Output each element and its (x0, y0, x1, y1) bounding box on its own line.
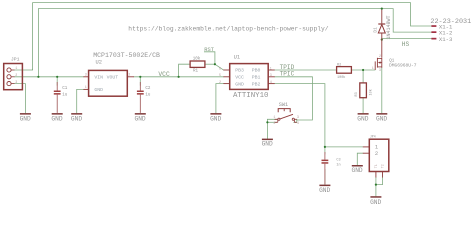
svg-text:1: 1 (273, 116, 275, 120)
wire U2 GND to ground (77, 89, 84, 113)
capacitor C3 (322, 152, 329, 184)
svg-text:5: 5 (219, 74, 221, 78)
wire Q1 drain to ground (381, 68, 383, 113)
svg-text:1: 1 (15, 67, 17, 71)
node RST at R1 output (214, 63, 216, 65)
junction JP4 bottom pins (375, 184, 377, 186)
svg-text:3: 3 (85, 73, 87, 77)
ground JP1 pin3 (20, 113, 31, 115)
junction C1 on VIN bus (56, 76, 58, 78)
wire JP1 pin1 horizontal (15, 69, 33, 70)
ground Q1 (376, 113, 387, 115)
svg-text:1: 1 (270, 67, 272, 71)
wire VCC up to R1 (179, 64, 191, 77)
svg-text:SW1: SW1 (279, 102, 289, 108)
wire SW1 left pin2 stub (267, 121, 276, 123)
wire JP1 pin3 to GND (15, 84, 26, 113)
junction R1 branch on VCC bus (178, 76, 180, 78)
svg-text:2: 2 (375, 150, 378, 157)
svg-text:4: 4 (297, 122, 299, 126)
svg-text:2: 2 (379, 55, 381, 59)
resistor R1 (190, 61, 205, 67)
ground symbols row under left section (20, 113, 387, 198)
svg-text:X1-3: X1-3 (439, 36, 452, 43)
svg-text:PB0: PB0 (252, 68, 261, 74)
wire JP4 bottom pin T1 to GND (375, 178, 377, 197)
ground C2 (135, 113, 146, 115)
svg-text:1u: 1u (62, 93, 68, 97)
svg-text:U1: U1 (234, 54, 240, 60)
junction VIN bus at JP1 (37, 76, 39, 78)
connector JP4 (363, 139, 389, 177)
svg-text:GND: GND (319, 187, 330, 194)
svg-text:PB2: PB2 (252, 81, 261, 87)
wire RST label stub (204, 52, 215, 64)
wire diagonal RST node to U1 PB3 (215, 64, 224, 70)
svg-text:2: 2 (219, 81, 221, 85)
wire bus top from JP1 pin2 junction to diode and X1-2 (38, 9, 431, 77)
svg-text:3: 3 (15, 81, 17, 85)
wire SW1 right pin stubs (294, 119, 297, 122)
ground C1 (52, 113, 63, 115)
svg-text:T1: T1 (375, 164, 379, 168)
wire C3 to ground (324, 170, 326, 185)
svg-text:VCC: VCC (235, 75, 244, 81)
svg-text:2: 2 (128, 73, 130, 77)
svg-text:GND: GND (135, 115, 146, 122)
svg-text:ATTINY10: ATTINY10 (233, 92, 268, 100)
wire gate node down to R3 (362, 70, 364, 83)
ground SW1 (262, 139, 273, 141)
svg-text:3: 3 (297, 116, 299, 120)
wire JP1 pin2 to U2 VIN (15, 76, 84, 78)
svg-text:GND: GND (94, 87, 103, 93)
svg-text:2: 2 (273, 122, 275, 126)
junction C2 on VCC bus (139, 76, 141, 78)
wire JP4 bottom pin T2 join (376, 178, 383, 185)
MCU U1 ATTINY10 (223, 64, 274, 90)
svg-text:JP1: JP1 (11, 56, 20, 62)
wire node down to C3 (324, 147, 326, 154)
svg-text:6: 6 (219, 67, 221, 71)
wire R2 to gate node (351, 69, 375, 71)
capacitor C1 (54, 82, 61, 113)
svg-text:JP4: JP4 (370, 135, 376, 139)
svg-text:4: 4 (270, 81, 272, 85)
svg-text:3: 3 (379, 69, 381, 73)
svg-text:D1: D1 (372, 27, 378, 33)
svg-text:U2: U2 (96, 59, 102, 65)
svg-text:1: 1 (85, 86, 87, 90)
svg-text:T2: T2 (382, 164, 386, 168)
svg-text:R2: R2 (337, 63, 341, 67)
wire C2 branch (139, 77, 141, 85)
svg-text:GND: GND (262, 141, 273, 148)
wire node to JP4 pin1 (325, 146, 363, 148)
svg-text:GND: GND (352, 167, 363, 174)
wire R1 to RST node (205, 63, 215, 65)
wire U1 GND to ground (216, 84, 224, 113)
ground JP4 bottom (370, 196, 381, 198)
node HS diode anode (381, 39, 383, 41)
svg-text:C3: C3 (336, 158, 340, 162)
svg-text:RST: RST (204, 47, 214, 53)
svg-text:MCP1703T-5002E/CB: MCP1703T-5002E/CB (93, 52, 160, 59)
ground U2 (71, 113, 82, 115)
svg-text:R3: R3 (355, 92, 359, 96)
wire R3 to ground (362, 98, 364, 113)
svg-text:10k: 10k (368, 89, 373, 95)
svg-text:R1: R1 (193, 70, 199, 74)
svg-text:VCC: VCC (158, 71, 170, 78)
svg-text:GND: GND (376, 115, 387, 122)
ground JP4 pin2 (352, 165, 363, 167)
wire PB2 to JP4 node (275, 84, 325, 147)
connector X1 pins (431, 25, 436, 39)
node PB2 JP4-C3 branch (324, 146, 326, 148)
svg-text:3: 3 (270, 74, 272, 78)
wire SW1 left pins to GND (267, 119, 276, 138)
svg-text:HS: HS (402, 41, 410, 48)
resistor R2 (337, 67, 352, 74)
wire VIN top from JP1 pin1 to X1-1 (33, 3, 432, 70)
svg-text:PB1: PB1 (252, 75, 261, 81)
svg-text:PB3: PB3 (235, 68, 244, 74)
svg-text:GND: GND (370, 199, 381, 206)
svg-text:GND: GND (210, 115, 221, 122)
regulator U2 MCP1703 (83, 70, 134, 96)
svg-text:https://blog.zakkemble.net/lap: https://blog.zakkemble.net/laptop-bench-… (128, 25, 328, 32)
wire HS from diode node to X1-3 (382, 38, 432, 40)
svg-text:GND: GND (357, 115, 368, 122)
svg-text:1u: 1u (145, 93, 151, 97)
ground C3 (319, 185, 330, 187)
svg-text:DMG6968U-7: DMG6968U-7 (389, 63, 417, 69)
wire TPID from U1 PB0 to R2 (275, 69, 337, 71)
wire JP4 pin2 to GND (357, 153, 363, 165)
junction diode cathode on VIN wire (381, 8, 383, 10)
wire VCC from U2 VOUT to U1 VCC (134, 76, 223, 78)
diode D1 1N4148 (378, 10, 385, 57)
svg-text:GND: GND (71, 115, 82, 122)
switch SW1 (275, 109, 297, 123)
svg-text:GND: GND (235, 81, 244, 87)
svg-text:1N4148WT: 1N4148WT (386, 15, 392, 39)
node gate R2-R3 (362, 69, 364, 71)
transistor Q1 P-MOSFET (375, 57, 382, 70)
svg-text:2: 2 (15, 74, 17, 78)
capacitor C2 (137, 82, 144, 113)
svg-text:VIN: VIN (94, 75, 103, 81)
svg-text:1: 1 (372, 67, 374, 71)
svg-text:GND: GND (20, 115, 31, 122)
svg-text:1n: 1n (336, 163, 340, 167)
junction SW1 pins to GND (266, 121, 268, 123)
svg-text:C1: C1 (62, 87, 68, 91)
svg-text:GND: GND (51, 115, 62, 122)
svg-text:VOUT: VOUT (107, 75, 119, 81)
wire TPIC from U1 PB1 to SW1 (275, 77, 313, 120)
connector JP1 (4, 64, 23, 90)
svg-text:10k: 10k (193, 57, 201, 62)
ground U1 (210, 113, 221, 115)
wire C1 branch (56, 77, 58, 85)
resistor R3 (360, 83, 367, 98)
svg-text:TPIC: TPIC (280, 71, 295, 78)
svg-text:100k: 100k (337, 75, 345, 80)
ground R3 (358, 113, 369, 115)
svg-text:C2: C2 (145, 87, 151, 91)
